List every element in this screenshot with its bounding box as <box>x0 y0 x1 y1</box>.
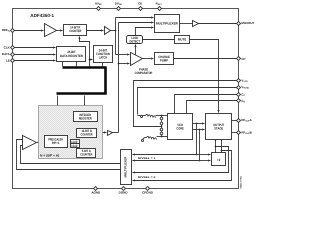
svg-text:CPGND: CPGND <box>142 191 154 195</box>
svg-text:DATA REGISTER: DATA REGISTER <box>60 54 84 58</box>
svg-text:MULTIPLEXER: MULTIPLEXER <box>124 156 128 178</box>
svg-text:N = (BP + A): N = (BP + A) <box>40 153 59 157</box>
svg-text:÷2: ÷2 <box>217 158 221 162</box>
svg-text:VTUNE: VTUNE <box>241 85 249 90</box>
svg-text:LOAD: LOAD <box>71 144 77 148</box>
svg-text:03321-0-001: 03321-0-001 <box>240 175 243 188</box>
svg-text:STAGE: STAGE <box>214 127 223 131</box>
svg-text:DVDD: DVDD <box>115 2 123 7</box>
svg-text:REFIN: REFIN <box>2 28 11 33</box>
svg-text:LATCH: LATCH <box>99 55 108 59</box>
svg-text:COUNTER: COUNTER <box>80 153 93 157</box>
svg-text:PUMP: PUMP <box>160 58 169 62</box>
svg-text:MULTIPLEXER: MULTIPLEXER <box>156 21 179 25</box>
svg-text:CC: CC <box>241 93 245 98</box>
svg-text:CLK: CLK <box>4 46 11 50</box>
svg-text:LE: LE <box>6 59 10 63</box>
svg-text:AGND: AGND <box>91 191 101 195</box>
svg-text:CE: CE <box>138 2 142 6</box>
svg-text:ADF4360-1: ADF4360-1 <box>30 13 54 18</box>
svg-text:CN: CN <box>241 99 245 104</box>
svg-text:MUTE: MUTE <box>178 38 186 42</box>
svg-text:DIVSEL = 2: DIVSEL = 2 <box>138 176 156 179</box>
svg-text:VVCO: VVCO <box>241 78 248 83</box>
svg-text:RFOUTB: RFOUTB <box>241 131 252 136</box>
svg-text:CP: CP <box>241 57 245 61</box>
svg-text:RFOUTA: RFOUTA <box>241 118 252 123</box>
svg-text:COMPARATOR: COMPARATOR <box>135 71 153 75</box>
svg-text:MUXOUT: MUXOUT <box>241 21 254 25</box>
svg-text:DGND: DGND <box>119 191 129 195</box>
svg-text:DATA: DATA <box>2 52 11 56</box>
svg-text:REGISTER: REGISTER <box>79 117 93 121</box>
svg-text:DIVSEL = 1: DIVSEL = 1 <box>138 157 156 160</box>
svg-text:AVDD: AVDD <box>95 2 102 7</box>
svg-text:DETECT: DETECT <box>130 39 141 43</box>
svg-text:CORE: CORE <box>176 127 184 131</box>
svg-text:COUNTER: COUNTER <box>81 133 94 137</box>
svg-text:RSET: RSET <box>156 2 163 7</box>
svg-text:COUNTER: COUNTER <box>69 29 82 33</box>
svg-text:P/P+1: P/P+1 <box>52 141 60 145</box>
